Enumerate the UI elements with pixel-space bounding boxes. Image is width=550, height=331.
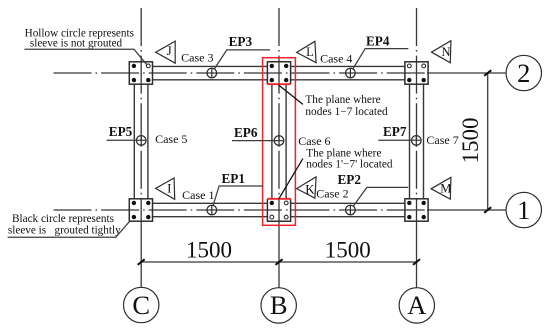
column A-2 square	[405, 62, 428, 84]
svg-text:Case 3: Case 3	[181, 51, 213, 65]
svg-text:EP4: EP4	[366, 34, 390, 49]
note: hollow circle legend (top left)	[25, 27, 147, 64]
svg-text:EP6: EP6	[234, 125, 258, 140]
beam on axis A vertical (edges)	[410, 84, 424, 199]
axis A (vertical dash-dot)	[416, 8, 418, 222]
beam B-A on line 2 (edges)	[291, 66, 405, 79]
beam on axis B vertical (edges)	[272, 84, 286, 199]
label EP4 with leader	[353, 34, 409, 69]
grid bubble 2	[506, 55, 541, 90]
axis line 1 (horizontal dash-dot)	[54, 209, 428, 211]
node circle Case 1	[207, 205, 217, 215]
svg-text:N: N	[441, 45, 450, 59]
grid bubble B	[261, 288, 296, 323]
svg-text:M: M	[440, 181, 451, 195]
axis C (vertical dash-dot)	[140, 8, 142, 222]
label EP6 with leader	[232, 125, 284, 140]
svg-text:I: I	[167, 180, 171, 195]
node circle Case 2	[346, 205, 356, 215]
svg-text:1500: 1500	[186, 238, 232, 263]
dimension tick at C	[138, 259, 145, 265]
column A-1 square	[405, 199, 428, 221]
section mark L	[297, 41, 317, 62]
svg-text:nodes 1'−7' located: nodes 1'−7' located	[306, 159, 393, 171]
svg-text:Case 5: Case 5	[155, 132, 187, 146]
svg-text:The plane where: The plane where	[306, 147, 381, 159]
node circle Case 6	[274, 136, 284, 146]
svg-text:A: A	[407, 290, 426, 320]
column C-1 square	[129, 199, 152, 221]
beam C-B on line 2 (edges)	[153, 66, 268, 79]
note: black circle legend (bottom left)	[8, 213, 130, 237]
beam on axis C vertical (edges)	[134, 84, 148, 199]
right dimension line	[487, 73, 489, 210]
beam B-A on line 1 (edges)	[291, 203, 405, 216]
axis B solid extension to bubble B	[278, 222, 280, 288]
section mark J	[156, 41, 176, 63]
column A-1 sleeve dots (all black)	[407, 201, 426, 220]
bottom dimension line	[141, 261, 416, 263]
node circle Case 3	[207, 68, 217, 78]
column B-1 square (top edge red = plane of nodes 1'-7')	[267, 199, 290, 221]
note: plane of nodes 1'-7' with leader	[279, 147, 393, 199]
axis line 1 solid extension to bubble 1	[427, 209, 506, 211]
label EP2 with leader	[338, 172, 409, 206]
dimension tick at line 1	[484, 207, 491, 213]
svg-text:L: L	[306, 45, 314, 59]
label EP3 with leader	[214, 34, 270, 69]
svg-text:The plane where: The plane where	[305, 94, 380, 106]
svg-text:Case 2: Case 2	[316, 187, 348, 201]
svg-text:sleeve is grouted tightly: sleeve is grouted tightly	[8, 225, 121, 237]
svg-text:nodes 1−7 located: nodes 1−7 located	[305, 106, 388, 118]
dimension tick at B	[276, 259, 283, 265]
svg-text:Case 7: Case 7	[426, 133, 458, 147]
svg-text:Case 6: Case 6	[298, 134, 330, 148]
svg-text:EP3: EP3	[229, 34, 253, 49]
column B-2 sleeve dots (all black)	[270, 64, 289, 83]
svg-text:EP5: EP5	[109, 124, 133, 139]
section mark K	[297, 177, 317, 198]
section mark M	[431, 177, 451, 199]
section mark I	[156, 178, 175, 199]
label EP7 with leader	[378, 124, 421, 140]
column A-2 sleeve dots (TL,TR hollow; BL,BR black)	[407, 64, 426, 82]
svg-text:EP1: EP1	[222, 171, 245, 186]
node circle Case 5	[136, 136, 146, 146]
node circle Case 4	[346, 68, 356, 78]
column C-2 sleeve dots (TL,BL,BR black; TR hollow)	[132, 64, 151, 83]
svg-text:EP7: EP7	[383, 124, 407, 139]
column B-1 sleeve dots (TL black; TR,BL,BR hollow)	[270, 201, 289, 219]
svg-text:Black circle represents: Black circle represents	[12, 213, 114, 225]
axis B (vertical dash-dot)	[278, 8, 280, 222]
column C-1 sleeve dots (all black)	[132, 201, 151, 220]
svg-text:EP2: EP2	[338, 172, 362, 187]
red highlight rectangle around middle column strip	[263, 58, 296, 226]
svg-text:C: C	[132, 290, 150, 320]
svg-text:Case 1: Case 1	[182, 188, 214, 202]
section mark N	[432, 41, 451, 63]
label EP1 with leader	[213, 171, 263, 206]
svg-text:B: B	[270, 290, 288, 320]
dimension tick at A	[413, 259, 420, 265]
grid bubble A	[399, 288, 434, 323]
svg-text:1500: 1500	[458, 118, 483, 164]
column B-2 square (bottom edge red = plane of nodes 1-7)	[267, 62, 290, 84]
axis line 2 (horizontal dash-dot)	[54, 72, 428, 74]
dimension tick at line 2	[484, 70, 491, 76]
svg-text:K: K	[305, 182, 315, 197]
svg-text:sleeve is not grouted: sleeve is not grouted	[30, 38, 123, 50]
label EP5 with leader	[107, 124, 147, 140]
note: plane of nodes 1-7 with leader	[279, 85, 388, 118]
svg-text:J: J	[167, 43, 172, 58]
axis line 2 solid extension to bubble 2	[427, 72, 506, 74]
grid bubble 1	[506, 192, 541, 227]
svg-text:1500: 1500	[325, 238, 371, 263]
grid bubble C	[124, 287, 159, 322]
beam C-B on line 1 (edges)	[153, 203, 268, 216]
axis C solid extension to bubble C	[140, 222, 142, 287]
column C-2 square	[129, 62, 152, 84]
svg-text:2: 2	[517, 58, 530, 88]
axis A solid extension to bubble A	[416, 222, 418, 288]
svg-text:Case 4: Case 4	[320, 51, 352, 65]
node circle Case 7	[412, 136, 422, 146]
svg-text:1: 1	[517, 195, 530, 225]
